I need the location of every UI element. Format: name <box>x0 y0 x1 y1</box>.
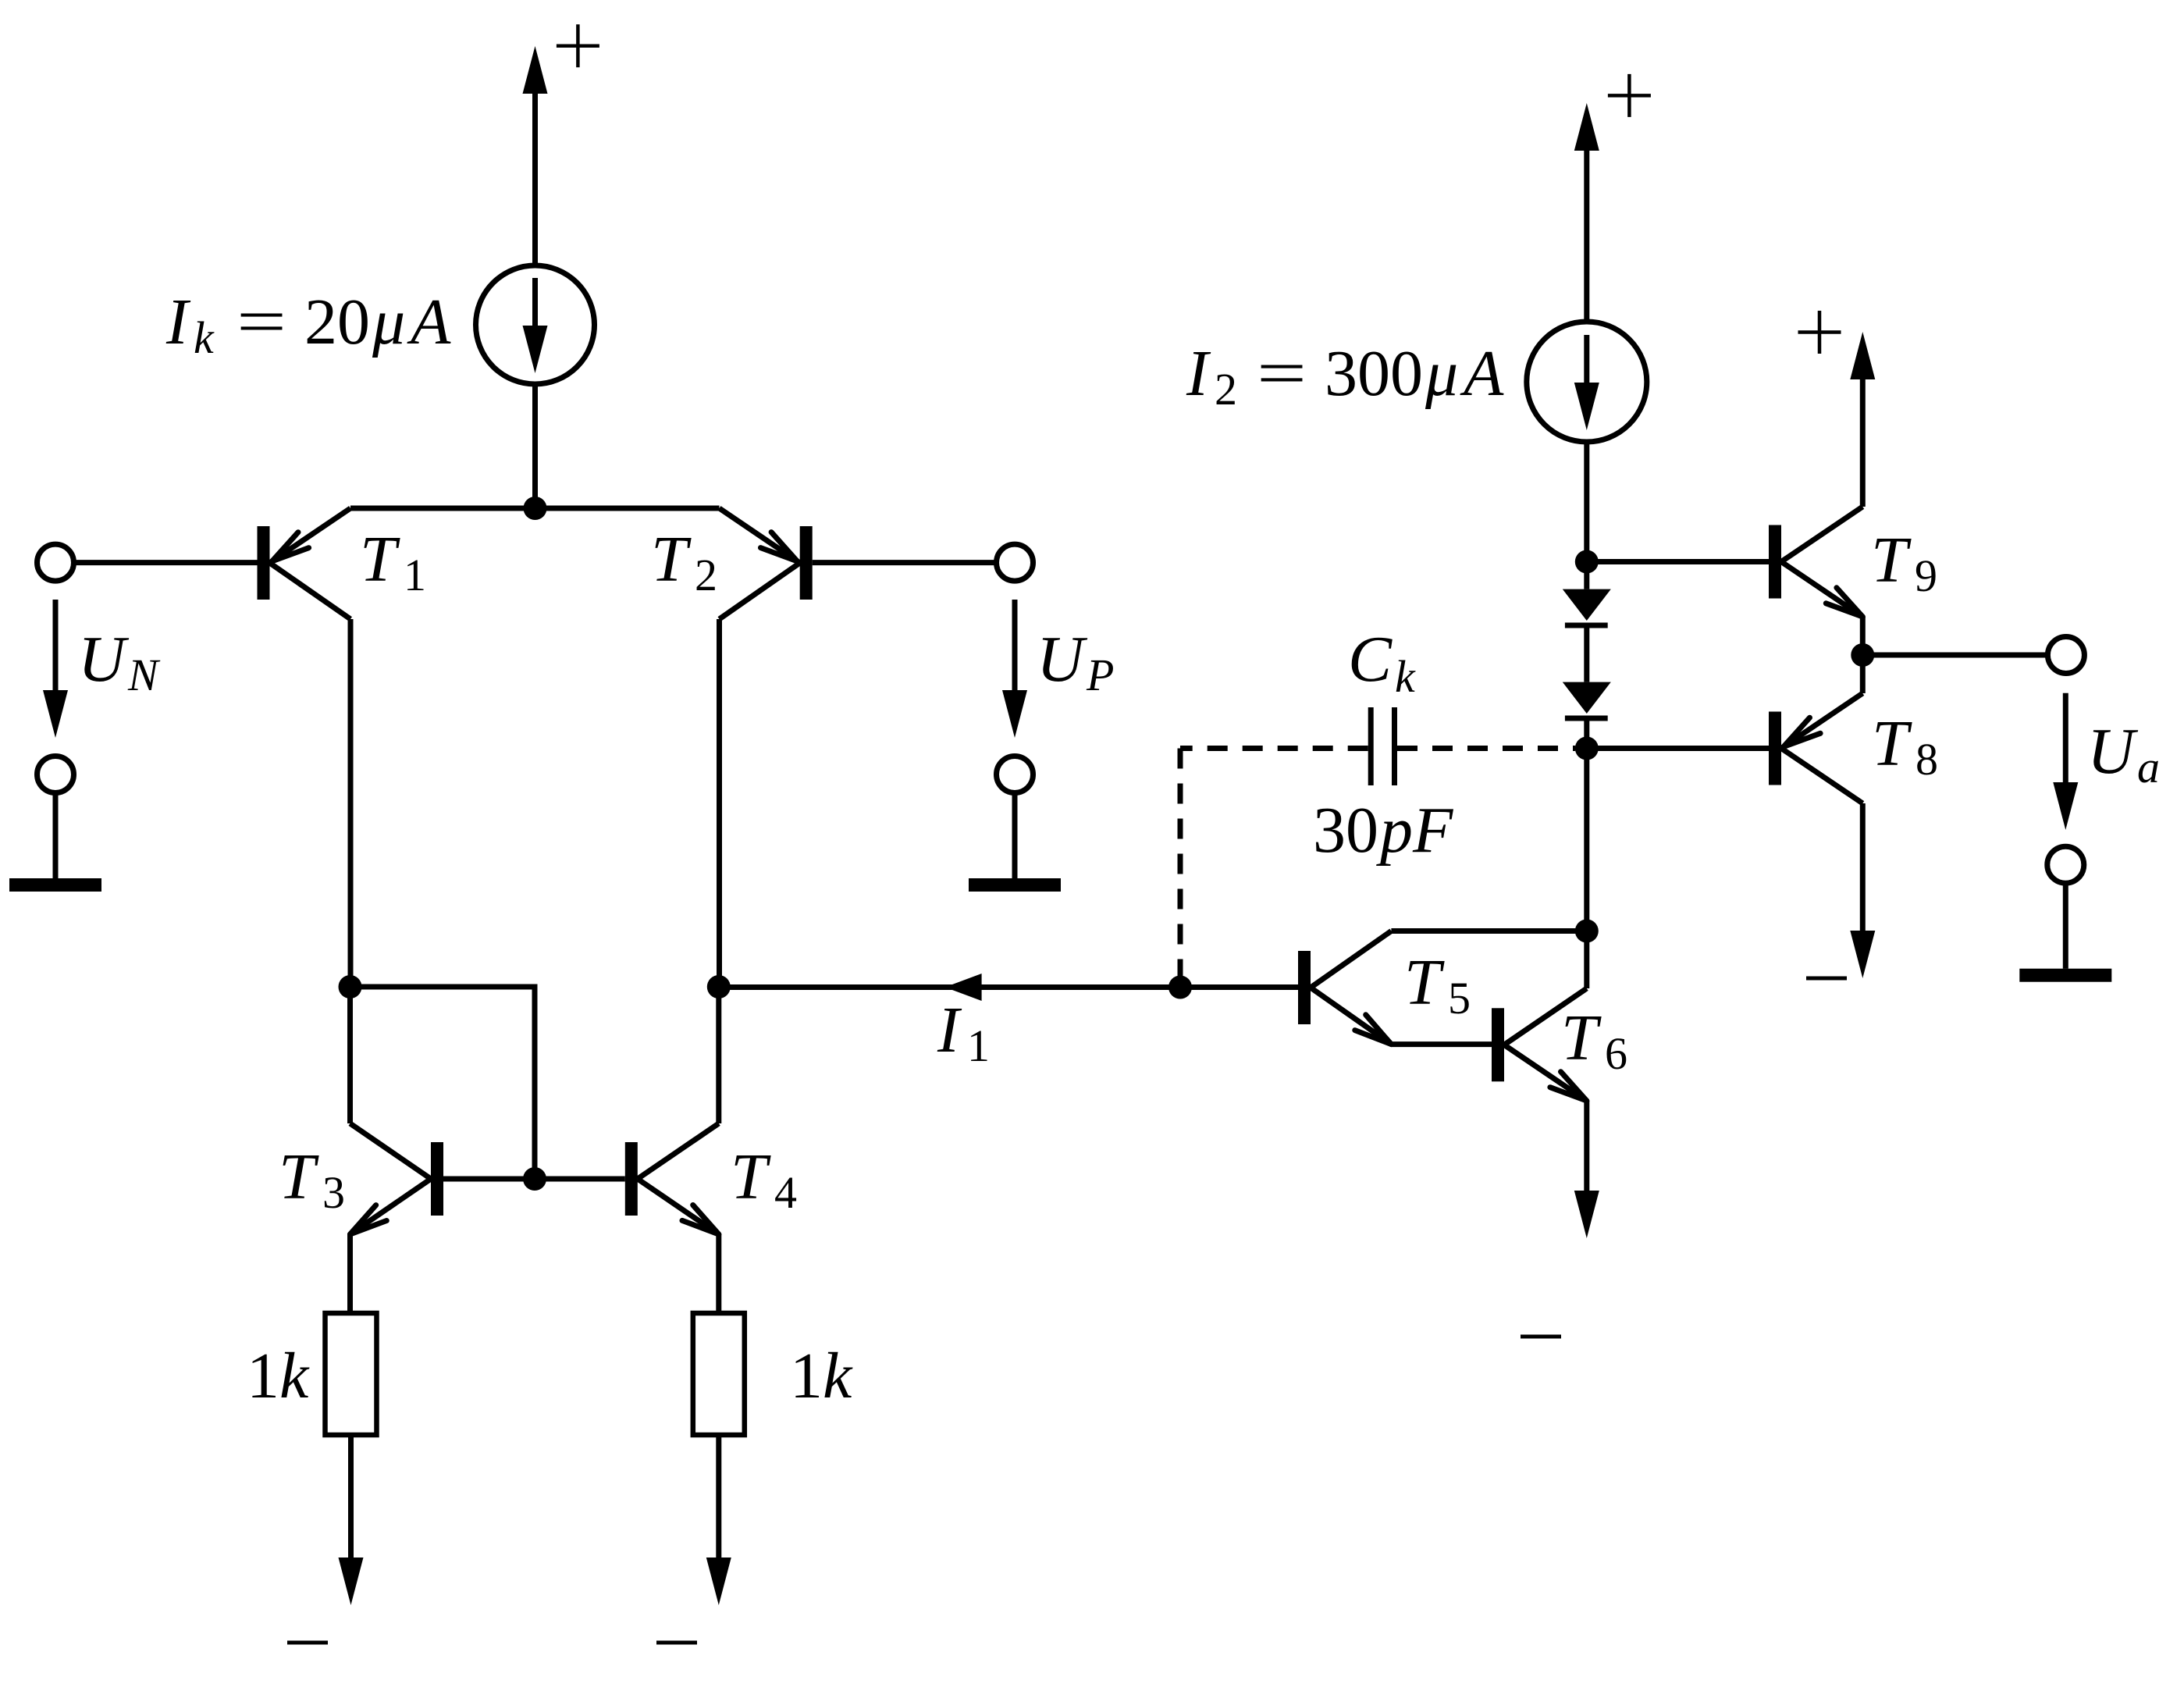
svg-text:I: I <box>165 286 191 358</box>
wire output <box>1862 653 2047 658</box>
minus V- left <box>287 1641 328 1645</box>
current source I2 <box>1527 322 1647 442</box>
svg-text:20: 20 <box>304 286 370 358</box>
ground UN <box>9 793 101 892</box>
label I1 <box>937 994 990 1071</box>
terminal UP ground side <box>997 756 1033 793</box>
wire base rail <box>443 1177 625 1182</box>
svg-text:I: I <box>1186 337 1211 410</box>
svg-text:4: 4 <box>774 1167 797 1218</box>
node output <box>1851 643 1874 667</box>
wire I1 <box>720 984 1299 990</box>
svg-text:6: 6 <box>1605 1028 1627 1079</box>
voltage arrow UN <box>43 600 68 738</box>
wire T9 base <box>1587 559 1769 564</box>
label T4 <box>731 1141 797 1218</box>
svg-text:T: T <box>279 1141 319 1213</box>
wire T9 collector to V+ <box>1850 332 1875 507</box>
svg-text:1: 1 <box>404 550 426 600</box>
transistor T1 <box>258 508 351 619</box>
svg-text:I: I <box>937 994 962 1066</box>
svg-text:2: 2 <box>695 550 717 600</box>
wire T1 base <box>74 560 258 565</box>
node T5-T6 collectors <box>1575 920 1599 943</box>
terminal Ua <box>2047 637 2084 674</box>
svg-text:U: U <box>2087 715 2139 788</box>
svg-text:pF: pF <box>1376 794 1454 867</box>
resistor R3 1k <box>325 1313 377 1435</box>
node dashed tap <box>1168 976 1192 999</box>
terminal UN ground side <box>37 756 74 793</box>
terminal UN input <box>37 544 74 581</box>
svg-text:N: N <box>127 650 161 700</box>
wire T2 base <box>813 560 997 565</box>
label 1k left <box>247 1340 310 1412</box>
label Ua <box>2087 715 2160 792</box>
terminal UP input <box>997 544 1033 581</box>
power supply + (Ik rail) <box>523 24 599 265</box>
node T2-T4 collectors <box>707 975 731 999</box>
plus V+ T9 <box>1798 311 1841 354</box>
transistor T8 <box>1769 693 1862 803</box>
node mirror bases <box>523 1167 546 1191</box>
dashed wire Ck left <box>1180 749 1368 988</box>
svg-text:T: T <box>731 1141 771 1213</box>
label UP <box>1037 623 1114 700</box>
wire T3 emitter <box>347 1234 353 1315</box>
label I2 = 300uA <box>1186 337 1504 415</box>
svg-text:k: k <box>1395 651 1416 702</box>
svg-text:μ: μ <box>372 286 405 358</box>
wire T8 base <box>1587 746 1769 751</box>
wire source to diode stack <box>1584 442 1589 562</box>
svg-text:a: a <box>2137 742 2160 792</box>
minus V- T8 <box>1806 977 1847 981</box>
wire T1 collector <box>348 619 354 987</box>
svg-text:1: 1 <box>790 1340 823 1412</box>
label T8 <box>1872 707 1938 785</box>
svg-text:1: 1 <box>967 1020 990 1071</box>
terminal Ua ground side <box>2047 846 2084 883</box>
transistor T5 <box>1298 931 1391 1045</box>
label T6 <box>1561 1002 1627 1079</box>
label T2 <box>651 523 717 600</box>
ground Ua <box>2019 883 2111 982</box>
svg-text:=: = <box>1257 337 1307 410</box>
label T1 <box>360 523 426 600</box>
wire emitter rail <box>350 506 720 511</box>
node T1-T3 collectors <box>339 975 362 999</box>
svg-text:U: U <box>1037 623 1088 696</box>
transistor T3 <box>350 1123 444 1234</box>
transistor T6 <box>1492 988 1587 1101</box>
transistor T2 <box>720 508 813 619</box>
svg-text:=: = <box>237 286 286 358</box>
diode D2 <box>1563 682 1611 749</box>
svg-text:T: T <box>1561 1002 1602 1074</box>
svg-text:T: T <box>1871 524 1912 596</box>
svg-text:P: P <box>1086 650 1114 700</box>
svg-text:8: 8 <box>1915 734 1938 785</box>
transistor T4 <box>625 1123 719 1234</box>
voltage arrow UP <box>1002 600 1027 738</box>
svg-text:k: k <box>279 1340 310 1412</box>
svg-text:9: 9 <box>1915 550 1937 601</box>
svg-text:3: 3 <box>322 1167 345 1218</box>
svg-text:U: U <box>78 623 130 696</box>
svg-text:30: 30 <box>1313 794 1378 867</box>
label Ik = 20uA <box>165 286 451 363</box>
svg-text:k: k <box>194 312 215 363</box>
svg-text:2: 2 <box>1215 364 1237 415</box>
svg-text:300: 300 <box>1325 337 1423 410</box>
power supply + (I2 rail) <box>1574 74 1651 322</box>
wire T5 collector rail <box>1391 928 1586 934</box>
label 30pF <box>1313 794 1454 867</box>
wire R3 to V- <box>339 1435 364 1605</box>
node T9 base / diode anode <box>1575 550 1599 574</box>
wire T4 emitter <box>716 1234 721 1315</box>
wire T2 collector <box>717 619 722 987</box>
svg-text:5: 5 <box>1448 973 1471 1023</box>
svg-text:T: T <box>1872 707 1912 780</box>
svg-text:μ: μ <box>1425 337 1458 410</box>
svg-text:T: T <box>651 523 692 596</box>
wire T6 emitter to V- <box>1574 1101 1599 1238</box>
svg-text:T: T <box>1404 946 1445 1019</box>
svg-text:1: 1 <box>247 1340 279 1412</box>
minus V- right <box>656 1641 697 1645</box>
label T5 <box>1404 946 1471 1023</box>
wire T8 collector to V- <box>1850 803 1875 978</box>
voltage arrow Ua <box>2053 693 2078 830</box>
transistor T9 <box>1769 507 1862 617</box>
dashed wire Ck right <box>1397 746 1575 751</box>
wire T6 collector <box>1584 931 1589 989</box>
label 1k right <box>790 1340 853 1412</box>
ground UP <box>969 793 1061 892</box>
svg-text:k: k <box>823 1340 853 1412</box>
wire R4 to V- <box>706 1435 731 1605</box>
node T8 base / Ck <box>1575 737 1599 760</box>
wire link to T5 collector <box>1584 749 1589 931</box>
resistor R4 1k <box>693 1313 745 1435</box>
svg-text:T: T <box>360 523 400 596</box>
wire mirror bridge <box>350 987 535 1179</box>
wire T3 collector <box>347 987 353 1123</box>
diode D1 <box>1563 562 1611 682</box>
label UN <box>78 623 161 700</box>
label Ck <box>1348 623 1416 702</box>
svg-text:C: C <box>1348 623 1393 696</box>
wire T9 emitter <box>1860 617 1866 655</box>
wire T5 emitter rail <box>1391 1041 1492 1047</box>
node emitter rail <box>524 497 547 520</box>
wire T8 emitter <box>1860 655 1866 693</box>
label T9 <box>1871 524 1937 601</box>
svg-text:A: A <box>1460 337 1504 410</box>
minus V- T6 <box>1521 1335 1561 1339</box>
label T3 <box>279 1141 345 1218</box>
wire T4 collector <box>716 987 721 1123</box>
arrow I1 <box>945 974 982 1001</box>
svg-text:A: A <box>407 286 451 358</box>
wire source to emitter node <box>532 384 538 508</box>
current source Ik <box>476 265 595 384</box>
capacitor Ck plates <box>1371 707 1394 785</box>
